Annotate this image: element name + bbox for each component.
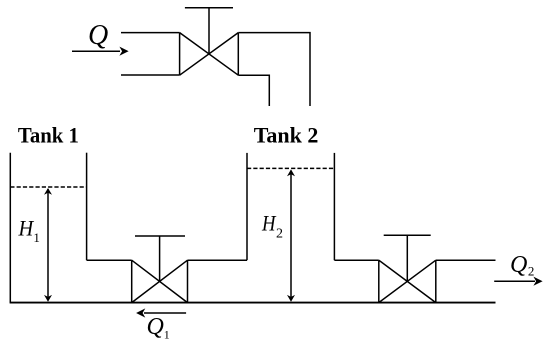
- svg-text:2: 2: [276, 227, 283, 242]
- svg-text:Tank 2: Tank 2: [254, 123, 319, 148]
- svg-text:Q2: Q2: [510, 252, 534, 278]
- svg-text:Tank 1: Tank 1: [18, 123, 79, 148]
- svg-text:H: H: [261, 211, 276, 236]
- svg-text:Q: Q: [88, 20, 108, 51]
- svg-text:H: H: [18, 216, 35, 241]
- svg-text:Q1: Q1: [147, 314, 170, 342]
- svg-text:1: 1: [33, 230, 40, 245]
